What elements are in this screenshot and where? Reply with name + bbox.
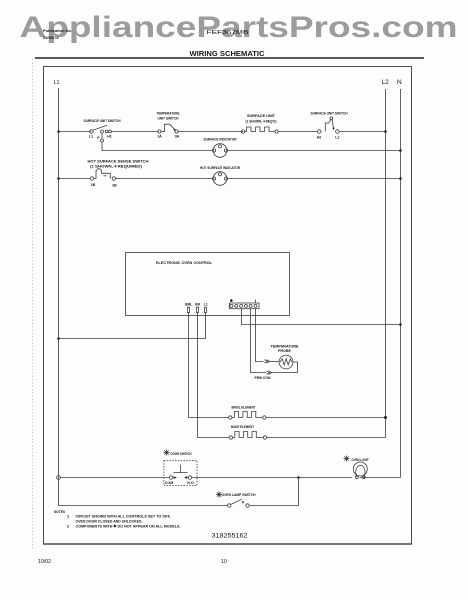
svg-text:WIRING SCHEMATIC: WIRING SCHEMATIC <box>190 51 265 58</box>
wire row1 left <box>59 131 92 133</box>
frame border <box>44 67 412 545</box>
svg-text:SURFACE UNIT SWITCH: SURFACE UNIT SWITCH <box>84 118 121 123</box>
svg-text:PRB CON: PRB CON <box>255 375 271 380</box>
svg-text:FEF367MB: FEF367MB <box>207 30 249 36</box>
switch oven lamp switch <box>216 492 256 508</box>
wire BK to bake row <box>198 313 230 438</box>
wire broil row right <box>266 417 385 419</box>
wire bake row right to L2 bottom <box>267 437 386 439</box>
heating element bake element <box>229 424 267 439</box>
switch hot surface sense switch <box>88 159 149 188</box>
electronic oven control box U1 <box>126 253 290 316</box>
svg-text:UNIT SWITCH: UNIT SWITCH <box>158 116 179 121</box>
wire row1 right <box>339 131 385 133</box>
indicator lamp surface indicator <box>204 137 237 158</box>
wire row3 middle <box>116 178 214 180</box>
pin L1 <box>204 303 208 313</box>
svg-text:ELECTRONIC OVEN CONTROL: ELECTRONIC OVEN CONTROL <box>156 260 213 265</box>
svg-text:(1 SHOWN, 4 REQ'D): (1 SHOWN, 4 REQ'D) <box>246 119 278 124</box>
wire N bus vertical <box>400 89 402 478</box>
svg-text:1: 1 <box>67 514 70 519</box>
junction relayrow-N <box>399 323 402 326</box>
heating element broil element <box>229 405 266 420</box>
wire row3 left <box>59 178 91 180</box>
wire door row right to N <box>360 477 401 479</box>
scan page edge artifact <box>32 59 34 549</box>
wire EOC L1 pin to L1 bus <box>59 313 206 339</box>
svg-text:OVEN LAMP SWITCH: OVEN LAMP SWITCH <box>222 492 256 497</box>
switch surface unit switch (right) <box>311 111 348 140</box>
header rule <box>35 57 424 59</box>
svg-text:L1: L1 <box>54 80 60 86</box>
junction broil-L2 <box>384 416 387 419</box>
svg-text:H2: H2 <box>317 136 322 140</box>
svg-text:10/02: 10/02 <box>38 559 51 565</box>
connector strip P1 <box>229 299 259 308</box>
svg-text:DOOR SWITCH: DOOR SWITCH <box>171 451 192 456</box>
svg-text:P: P <box>97 136 100 140</box>
svg-text:10: 10 <box>221 559 227 565</box>
wire to probe <box>270 361 280 363</box>
svg-text:H1: H1 <box>107 135 112 139</box>
svg-text:1A: 1A <box>157 135 162 139</box>
junction row1-L2 <box>384 130 387 133</box>
svg-text:SURFACE UNIT: SURFACE UNIT <box>247 113 276 118</box>
svg-text:3A: 3A <box>175 135 180 139</box>
wire row2 right to N <box>227 150 401 152</box>
svg-text:BAKE ELEMENT: BAKE ELEMENT <box>231 424 254 429</box>
temperature probe <box>271 344 299 369</box>
svg-text:2B: 2B <box>112 184 117 188</box>
svg-text:PROBE: PROBE <box>278 348 291 353</box>
lamp oven lamp <box>344 456 369 479</box>
svg-text:BK: BK <box>195 303 201 307</box>
junction L1-row1 <box>57 130 60 133</box>
junction L1-eoc <box>57 337 60 340</box>
switch surface unit switch (left) <box>84 118 121 140</box>
svg-text:NOTES: NOTES <box>54 509 65 514</box>
wire BRL to broil row <box>189 313 229 418</box>
svg-text:Publication No.: Publication No. <box>43 28 72 33</box>
svg-text:SURFACE INDICATOR: SURFACE INDICATOR <box>204 137 237 142</box>
svg-text:(1 SHOWN, 4 REQUIRED): (1 SHOWN, 4 REQUIRED) <box>90 164 143 169</box>
svg-text:HOT SURFACE INDICATOR: HOT SURFACE INDICATOR <box>200 165 240 170</box>
svg-text:318255162: 318255162 <box>212 534 249 540</box>
svg-text:09/35/78: 09/35/78 <box>43 35 59 40</box>
pin BK <box>195 303 201 313</box>
wire EOC pin3 to N <box>242 309 401 325</box>
svg-text:COM: COM <box>165 481 173 485</box>
wire probe feed (pin6) <box>256 309 264 362</box>
wire door row left <box>60 477 169 479</box>
wire P drop to pilot row <box>101 133 214 150</box>
wire row1 middle <box>111 131 158 133</box>
wire door row middle <box>192 477 352 479</box>
switch temperature unit switch <box>157 111 180 139</box>
svg-text:OVEN LAMP: OVEN LAMP <box>352 457 369 462</box>
connector PRB CON upper <box>265 360 270 364</box>
switch door switch S1 <box>164 450 198 486</box>
svg-text:N: N <box>397 79 402 86</box>
wire L2 bus vertical <box>385 89 387 438</box>
svg-text:L2: L2 <box>382 79 390 86</box>
junction row2-N <box>399 149 402 152</box>
svg-text:AppliancePartsPros.com: AppliancePartsPros.com <box>20 11 458 44</box>
indicator lamp hot surface indicator <box>200 165 240 185</box>
node L1 door-row tap <box>57 476 61 480</box>
svg-text:BROIL ELEMENT: BROIL ELEMENT <box>232 405 256 410</box>
wire L1 bus vertical <box>58 88 60 506</box>
wire return to pin5 <box>251 309 267 373</box>
heating element surface unit <box>241 113 278 133</box>
wire lamp switch row <box>59 505 228 507</box>
svg-text:1B: 1B <box>91 183 96 187</box>
junction L1-row3 <box>57 177 60 180</box>
junction lampswitch-doorrow <box>297 476 300 479</box>
wire row1 mid2 <box>178 131 243 133</box>
wire row1 mid3 <box>278 131 317 133</box>
svg-text:N.O: N.O <box>187 481 194 485</box>
svg-text:BRL: BRL <box>185 303 193 307</box>
wire row3 right to N <box>227 178 401 180</box>
svg-text:2: 2 <box>67 524 70 529</box>
connector PRB CON lower <box>267 371 272 375</box>
svg-text:L1: L1 <box>204 303 208 307</box>
svg-text:SURFACE UNIT SWITCH: SURFACE UNIT SWITCH <box>311 111 348 116</box>
pin BRL <box>185 303 193 313</box>
svg-text:COMPONENTS WITH ✱ DO NOT APPEA: COMPONENTS WITH ✱ DO NOT APPEAR ON ALL M… <box>76 524 181 529</box>
notes text <box>54 509 181 529</box>
svg-text:L2: L2 <box>335 136 339 140</box>
junction row3-N <box>399 177 402 180</box>
wire probe return <box>272 362 298 373</box>
wire lamp switch row right <box>249 478 298 506</box>
svg-text:L1: L1 <box>89 135 93 139</box>
frame bottom emphasis <box>44 543 412 545</box>
